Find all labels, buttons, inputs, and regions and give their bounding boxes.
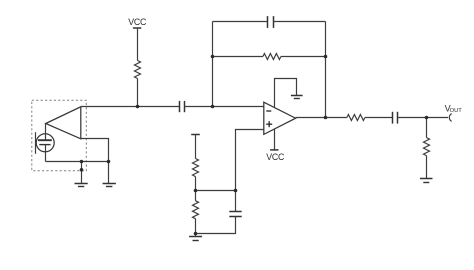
svg-text:VCC: VCC xyxy=(266,152,285,162)
svg-text:OUT: OUT xyxy=(450,108,463,114)
svg-text:VCC: VCC xyxy=(128,17,147,27)
